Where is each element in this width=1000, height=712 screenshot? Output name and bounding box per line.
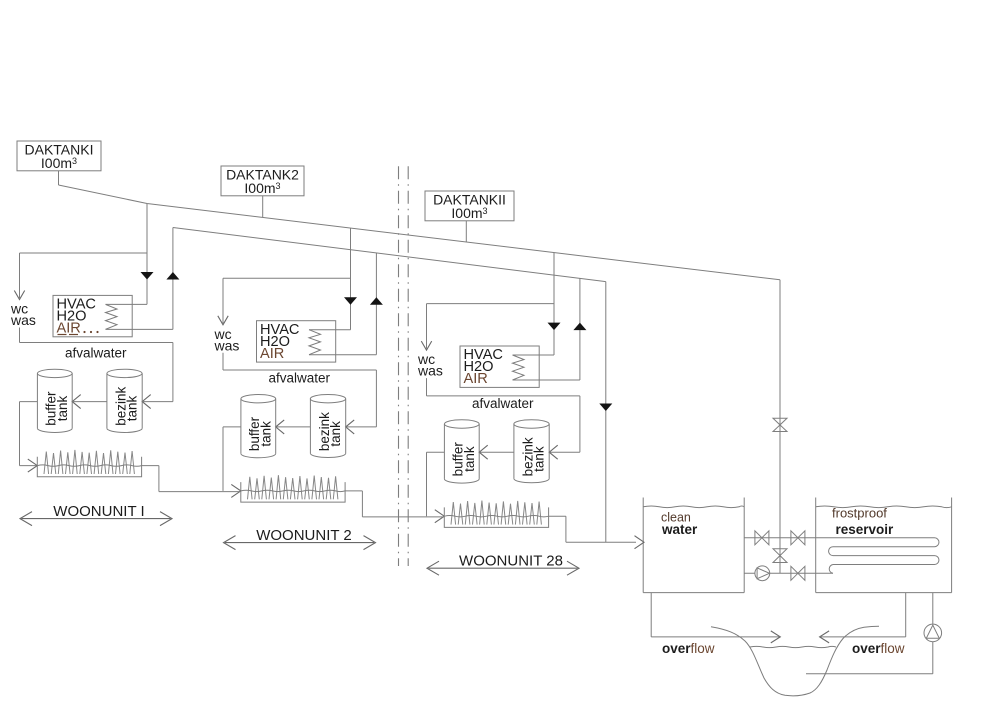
svg-text:over: over: [852, 641, 881, 656]
svg-text:was: was: [10, 312, 36, 328]
svg-text:over: over: [662, 641, 691, 656]
svg-text:tank: tank: [328, 421, 343, 447]
svg-text:was: was: [417, 363, 443, 379]
svg-text:AIR: AIR: [464, 371, 488, 387]
svg-text:was: was: [214, 337, 240, 353]
svg-text:tank: tank: [125, 396, 140, 422]
svg-text:WOONUNIT I: WOONUNIT I: [53, 503, 144, 520]
svg-text:frostproof: frostproof: [832, 506, 887, 521]
svg-text:tank: tank: [532, 446, 547, 472]
svg-text:WOONUNIT 2: WOONUNIT 2: [256, 527, 352, 544]
svg-text:afvalwater: afvalwater: [269, 370, 331, 385]
svg-text:afvalwater: afvalwater: [472, 396, 534, 411]
svg-text:WOONUNIT 28: WOONUNIT 28: [459, 553, 563, 570]
svg-text:tank: tank: [258, 421, 273, 447]
svg-text:I00m3: I00m3: [244, 180, 280, 196]
svg-text:flow: flow: [881, 641, 905, 656]
svg-text:water: water: [661, 522, 698, 537]
svg-text:AIR: AIR: [260, 346, 284, 362]
svg-text:I00m3: I00m3: [451, 205, 487, 221]
svg-text:afvalwater: afvalwater: [65, 346, 127, 361]
svg-text:flow: flow: [691, 641, 715, 656]
svg-text:reservoir: reservoir: [836, 522, 895, 537]
svg-text:tank: tank: [55, 396, 70, 422]
svg-text:I00m3: I00m3: [41, 155, 77, 171]
svg-text:tank: tank: [462, 446, 477, 472]
